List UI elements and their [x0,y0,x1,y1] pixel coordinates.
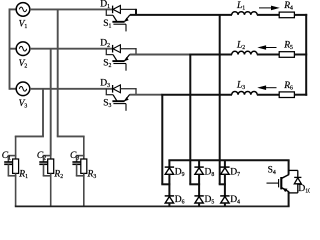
wire from left bus to source V2 [10,48,17,50]
node bottom of branch 1 [8,175,17,177]
capacitor C1 [4,156,12,176]
wire R5 to right bus [294,54,307,56]
wire diode D3 to corner [120,88,136,90]
wire D10 branch bottom [289,192,298,194]
wire drop into S2 [105,49,107,55]
wire output 2 thin segment [130,54,191,56]
current arrow branch 1 [259,6,279,10]
wire S4 emitter down to bottom rail [288,192,290,207]
transistor S2 [112,54,129,70]
wire output 2 to inductor L2 [189,54,232,56]
wire L2 to R5 [257,54,279,56]
wire phase1 output down to bridge [219,15,221,184]
wire shelf into S1 [106,14,113,16]
wire output 3 to inductor L3 [161,94,232,96]
wire phase2 output down to bridge [189,55,191,185]
transistor S4 [267,175,290,192]
diode D3 [113,85,121,93]
wire rail to diode D8 [198,160,200,167]
wire leg 3 midpoint down [224,184,226,196]
wire jog to bridge leg 1 [161,183,170,185]
wire branch 1 to bottom rail [15,176,17,207]
wire L1 to R4 [257,14,279,16]
wire bridge top rail [168,159,289,161]
wire L3 to R6 [257,94,279,96]
wire corner down to output 2 [135,48,137,54]
diode D6 [165,196,174,207]
node bottom of branch 2 [43,175,52,177]
wire corner down to output 1 [135,9,137,15]
node top of branch 1 [8,155,17,157]
resistor R3 [81,156,87,176]
transistor S3 [112,94,129,110]
wire tap from phase 2 down to C2R2 [50,49,52,156]
AC source V1 [16,3,30,17]
diode D8 [194,167,203,184]
resistor R4 [279,12,294,18]
wire left bus connecting V1 V2 V3 [9,8,11,89]
wire R6 to right bus [294,94,307,96]
wire output 1 to inductor L1 [130,14,232,16]
diode D9 [165,167,174,184]
capacitor C3 [72,156,80,176]
current arrow branch 2 [259,46,277,50]
wire shelf into S2 [106,54,113,56]
diode D5 [194,196,203,207]
wire bottom rail [15,205,290,207]
wire diode D1 to corner [120,8,136,10]
current arrow branch 3 [259,86,277,90]
wire jog phase1 tap to branch3 [57,135,85,137]
wire tap from phase 1 down [57,9,59,136]
diode D10 [294,170,301,193]
node bottom of branch 3 [76,175,85,177]
wire phase3 output down to bridge [161,95,163,185]
wire diode D2 to corner [120,48,136,50]
wire leg 2 midpoint down [198,184,200,196]
wire jog to bridge leg 2 [189,183,200,185]
wire drop to C3R3 top [83,136,85,156]
wire jog to bridge leg 3 [219,183,226,185]
wire rail to diode D9 [168,160,170,167]
resistor R2 [48,156,54,176]
wire from left bus to source V1 [10,8,17,10]
wire phase 2 from V2 to D2 [30,48,112,50]
wire corner down to output 3 [135,88,137,94]
wire phase 1 from V1 to D1 [30,8,112,10]
resistor R1 [13,156,19,176]
inductor L3 [232,92,258,95]
diode D2 [113,45,121,53]
wire phase 3 from V3 to D3 [30,88,112,90]
wire rail corner down to S4 [288,160,290,174]
diode D7 [220,167,229,184]
wire D10 branch top [289,169,298,171]
wire right bus [305,14,307,96]
wire jog phase3 tap to branch1 [15,135,44,137]
wire output 3 thin segment [130,94,163,96]
wire from left bus to source V3 [10,88,17,90]
wire drop into S3 [105,89,107,95]
wire drop into S1 [105,9,107,15]
node top of branch 3 [76,155,85,157]
wire rail to diode D7 [224,160,226,167]
transistor S1 [112,15,129,31]
wire leg 1 midpoint down [168,184,170,196]
wire branch 3 to bottom rail [83,176,85,207]
AC source V3 [16,82,30,96]
diode D1 [113,6,121,14]
wire tap from phase 3 down [42,89,44,137]
resistor R5 [279,52,294,58]
wire R4 to right bus [294,14,307,16]
AC source V2 [16,42,30,56]
inductor L2 [232,51,258,54]
wire branch 2 to bottom rail [50,176,52,207]
node top of branch 2 [43,155,52,157]
capacitor C2 [39,156,47,176]
resistor R6 [279,92,294,98]
wire shelf into S3 [106,94,113,96]
inductor L1 [232,12,258,15]
wire drop to C1R1 top [15,136,17,156]
diode D4 [220,196,229,207]
